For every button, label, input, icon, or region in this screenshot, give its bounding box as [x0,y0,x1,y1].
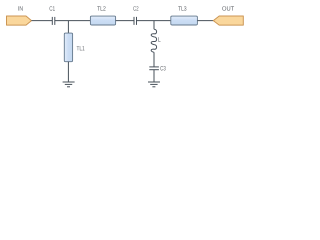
label TL3 [178,6,186,10]
wire TL1 to ground [67,62,69,82]
wire node to TL1 [67,21,69,34]
label C1 [50,6,55,10]
port OUT [213,16,243,25]
capacitor C2 [134,17,137,25]
wire C1 to TL2 [55,20,91,22]
wire TL3 to OUT [197,20,213,22]
label TL1 [77,46,85,50]
label C3 [160,66,165,70]
inductor L [151,29,156,52]
capacitor C3 [149,67,159,70]
wire IN to C1 [32,20,53,22]
wire C3 to ground [153,70,155,82]
wire L to C3 [153,52,155,67]
label L [158,37,160,41]
label IN [18,6,22,10]
ground (under C3) [148,82,160,87]
ground (under TL1) [63,82,75,87]
label OUT [222,6,234,10]
wire node to L [153,21,155,30]
transmission line TL3 [171,16,198,25]
wire C2 to TL3 [137,20,171,22]
port IN [7,16,32,25]
transmission line TL2 [90,16,115,25]
capacitor C1 [52,17,55,25]
label C2 [133,6,138,10]
transmission line TL1 [64,33,72,62]
wire TL2 to C2 [116,20,134,22]
label TL2 [97,6,105,10]
